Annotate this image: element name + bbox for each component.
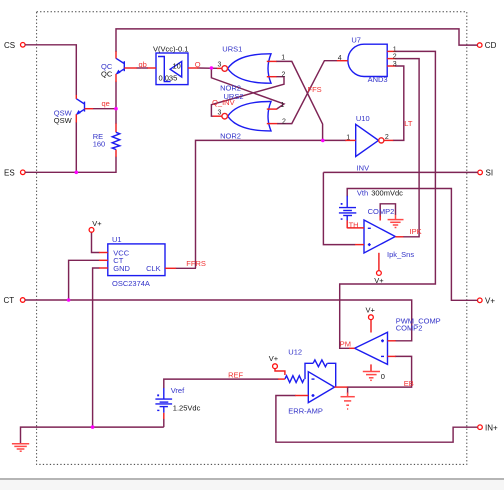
ground at ERR-AMP output: [341, 393, 355, 410]
svg-text:CD: CD: [485, 41, 497, 50]
nor gate URS1: [217, 44, 286, 92]
port ES: [4, 168, 25, 177]
svg-text:INV: INV: [357, 163, 370, 172]
svg-text:IPK: IPK: [410, 227, 422, 236]
op-amp U12 ERR-AMP: [278, 348, 348, 416]
svg-text:qe: qe: [102, 99, 110, 108]
wire V+ to U1 VCC: [92, 233, 100, 253]
wire ERR-AMP gnd stub: [347, 387, 349, 394]
wire ERR-AMP output to EB corner to PWM minus: [347, 356, 412, 387]
net label IPK: [410, 227, 422, 236]
svg-text:300mVdc: 300mVdc: [371, 189, 403, 198]
wire Q limiter output to node: [198, 67, 218, 69]
net label Q: [195, 60, 201, 69]
wire qb QC base to limiter input: [137, 67, 149, 69]
svg-text:QC: QC: [101, 70, 113, 79]
net label REF: [228, 371, 243, 380]
svg-text:0: 0: [381, 372, 385, 381]
port CT: [4, 296, 26, 305]
svg-text:FFS: FFS: [308, 85, 322, 94]
wire AND3 pin1 to PWM comparator output PM: [340, 51, 436, 348]
wire URS1 pin1 to CLK node diagonal: [276, 61, 323, 140]
svg-text:COMP2: COMP2: [396, 324, 423, 333]
net label FFRS: [186, 259, 206, 268]
and gate U7 AND3: [337, 36, 397, 84]
junction node CLK: [321, 139, 325, 143]
junction ground rail: [91, 425, 95, 429]
svg-text:URS1: URS1: [222, 44, 242, 53]
nor gate URS2: [213, 92, 286, 141]
wire U1 GND pin down to ground rail: [93, 268, 100, 427]
svg-text:ES: ES: [4, 168, 15, 177]
wire CS to QSW collector: [25, 45, 76, 95]
wire REF Vref top to ERR-AMP input: [164, 379, 279, 388]
svg-text:EB: EB: [404, 379, 414, 388]
wire QC emitter down to node qe: [115, 82, 117, 109]
junction CT rail: [67, 298, 71, 302]
svg-text:U10: U10: [356, 114, 370, 123]
wire ground rail bottom left: [21, 427, 164, 443]
svg-text:1: 1: [281, 55, 285, 62]
svg-text:QSW: QSW: [54, 116, 73, 125]
wire SI down to comparator plus input: [323, 172, 355, 244]
svg-text:SI: SI: [486, 169, 494, 178]
port CS: [4, 41, 25, 50]
net label qb: [139, 60, 147, 69]
svg-text:qb: qb: [139, 60, 147, 69]
svg-text:LT: LT: [404, 119, 413, 128]
resistor RE 160: [93, 123, 120, 157]
wire Vref bottom to ground rail: [163, 419, 165, 428]
bottom window edge strip: [0, 478, 504, 480]
wire node Q down and diagonal to URS2 pin1: [211, 68, 284, 109]
svg-text:COMP2: COMP2: [368, 207, 395, 216]
svg-text:3: 3: [393, 61, 397, 68]
power symbol V+ at ERR-AMP: [269, 354, 281, 371]
svg-text:U12: U12: [288, 348, 302, 357]
comparator PWM_COMP COMP2: [349, 317, 441, 371]
svg-text:1: 1: [281, 102, 285, 109]
wire CT rail to PWM comparator plus input: [25, 300, 412, 341]
wire Q_INV URS2 output to URS1 pin2: [211, 77, 284, 117]
wire CLK line U1 to INV input: [196, 140, 347, 268]
svg-text:1: 1: [393, 46, 397, 53]
wire U1 CLK pin to corner: [176, 267, 197, 269]
wire node qe down to RE top: [115, 109, 117, 124]
wire QSW base to node qe: [93, 108, 116, 110]
svg-text:U1: U1: [112, 235, 122, 244]
junction QSW emitter at ES: [75, 171, 79, 175]
net label LT: [404, 119, 413, 128]
svg-text:REF: REF: [228, 371, 243, 380]
wire ERR-AMP plus input to IN+ port: [276, 396, 478, 443]
svg-text:4: 4: [338, 55, 342, 62]
svg-text:3: 3: [218, 109, 222, 116]
inverter U10 INV: [345, 114, 393, 172]
svg-text:V+: V+: [374, 276, 384, 285]
junction node qe: [114, 107, 118, 111]
port V+: [478, 296, 496, 305]
svg-text:Ipk_Sns: Ipk_Sns: [387, 250, 414, 259]
schematic dashed boundary box: [37, 12, 467, 465]
transistor QC: [101, 51, 137, 82]
svg-text:2: 2: [282, 71, 286, 78]
svg-text:CS: CS: [4, 41, 15, 50]
svg-text:2: 2: [393, 54, 397, 61]
svg-text:160: 160: [93, 139, 106, 148]
ground 0 below PWM_COMP: [363, 372, 385, 382]
port CD: [477, 41, 496, 50]
svg-text:V+: V+: [485, 296, 495, 305]
svg-text:V+: V+: [366, 305, 376, 314]
voltage source Vth 300mVdc: [339, 189, 403, 221]
wire AND3 pin2 to comparator output IPK: [395, 59, 419, 237]
svg-text:0.035: 0.035: [159, 74, 178, 83]
svg-text:AND3: AND3: [368, 75, 388, 84]
svg-text:CLK: CLK: [146, 264, 161, 273]
comparator COMP2 Ipk_Sns: [347, 207, 414, 270]
svg-text:OSC2374A: OSC2374A: [112, 279, 150, 288]
svg-text:3: 3: [218, 62, 222, 69]
net label EB: [404, 379, 414, 388]
ground bottom left: [12, 444, 29, 451]
ground for COMP2: [388, 215, 404, 228]
svg-text:U7: U7: [351, 36, 361, 45]
port IN+: [478, 423, 498, 432]
svg-text:GND: GND: [113, 264, 130, 273]
wire SI line: [323, 171, 477, 173]
svg-text:NOR2: NOR2: [220, 131, 241, 140]
svg-text:IN+: IN+: [485, 423, 498, 432]
svg-text:FFRS: FFRS: [186, 259, 206, 268]
net label TH: [349, 220, 359, 229]
voltage source Vref 1.25Vdc: [155, 386, 200, 419]
transistor QSW: [54, 95, 93, 125]
svg-text:V+: V+: [269, 354, 279, 363]
wire QC collector to top rail to CD port: [116, 29, 477, 52]
net label FFS: [308, 85, 322, 94]
svg-text:10: 10: [173, 62, 181, 71]
power symbol V+ at PWM_COMP: [366, 305, 376, 319]
svg-text:CT: CT: [4, 296, 15, 305]
power symbol V+ at U1: [89, 219, 102, 232]
svg-text:1: 1: [346, 134, 350, 141]
limiter block V(Vcc)-0.1: [147, 44, 198, 84]
power symbol V+ at comparator: [374, 271, 384, 286]
svg-text:V(Vcc)-0.1: V(Vcc)-0.1: [153, 44, 188, 53]
svg-text:2: 2: [282, 118, 286, 125]
wire comparator gnd pin loop: [380, 204, 395, 217]
svg-text:TH: TH: [349, 220, 359, 229]
wire ES rail to RE bottom: [25, 157, 116, 173]
svg-text:Q_INV: Q_INV: [212, 98, 235, 107]
svg-text:1.25Vdc: 1.25Vdc: [173, 404, 201, 413]
svg-text:Vth: Vth: [357, 189, 368, 198]
net label qe: [102, 99, 110, 108]
oscillator U1 OSC2374A: [99, 235, 176, 288]
junction node Q: [210, 66, 214, 70]
wire URS2 pin2 to AND3 pin4: [277, 61, 337, 124]
svg-text:2: 2: [385, 134, 389, 141]
net label Q_INV: [212, 98, 235, 107]
svg-text:Q: Q: [195, 60, 201, 69]
svg-text:ERR-AMP: ERR-AMP: [288, 406, 323, 415]
net label PM: [340, 339, 351, 348]
port SI: [478, 169, 493, 178]
wire Vth top loop to V+ port: [347, 189, 477, 301]
svg-text:Vref: Vref: [171, 386, 185, 395]
svg-text:PM: PM: [340, 339, 351, 348]
wire U1 CT pin down to CT rail: [69, 260, 100, 300]
wire AND3 pin3 to INV output LT: [393, 66, 404, 140]
wire QSW emitter down to ES rail: [75, 122, 77, 172]
svg-text:V+: V+: [92, 219, 102, 228]
